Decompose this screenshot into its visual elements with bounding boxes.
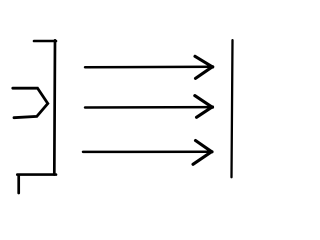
arrow 1 head — [195, 56, 212, 78]
arrow 3 shaft — [83, 150, 212, 153]
chevron electrode — [13, 88, 48, 118]
arrow 2 shaft — [85, 106, 213, 109]
left plate top arm — [34, 40, 56, 43]
left plate vertical — [53, 40, 56, 174]
arrow 1 shaft — [85, 66, 213, 69]
arrow 2 head — [195, 96, 212, 118]
arrow 3 head — [193, 141, 212, 165]
left plate bottom tick — [17, 175, 20, 193]
left plate bottom arm — [17, 173, 56, 176]
right plate — [232, 40, 233, 177]
